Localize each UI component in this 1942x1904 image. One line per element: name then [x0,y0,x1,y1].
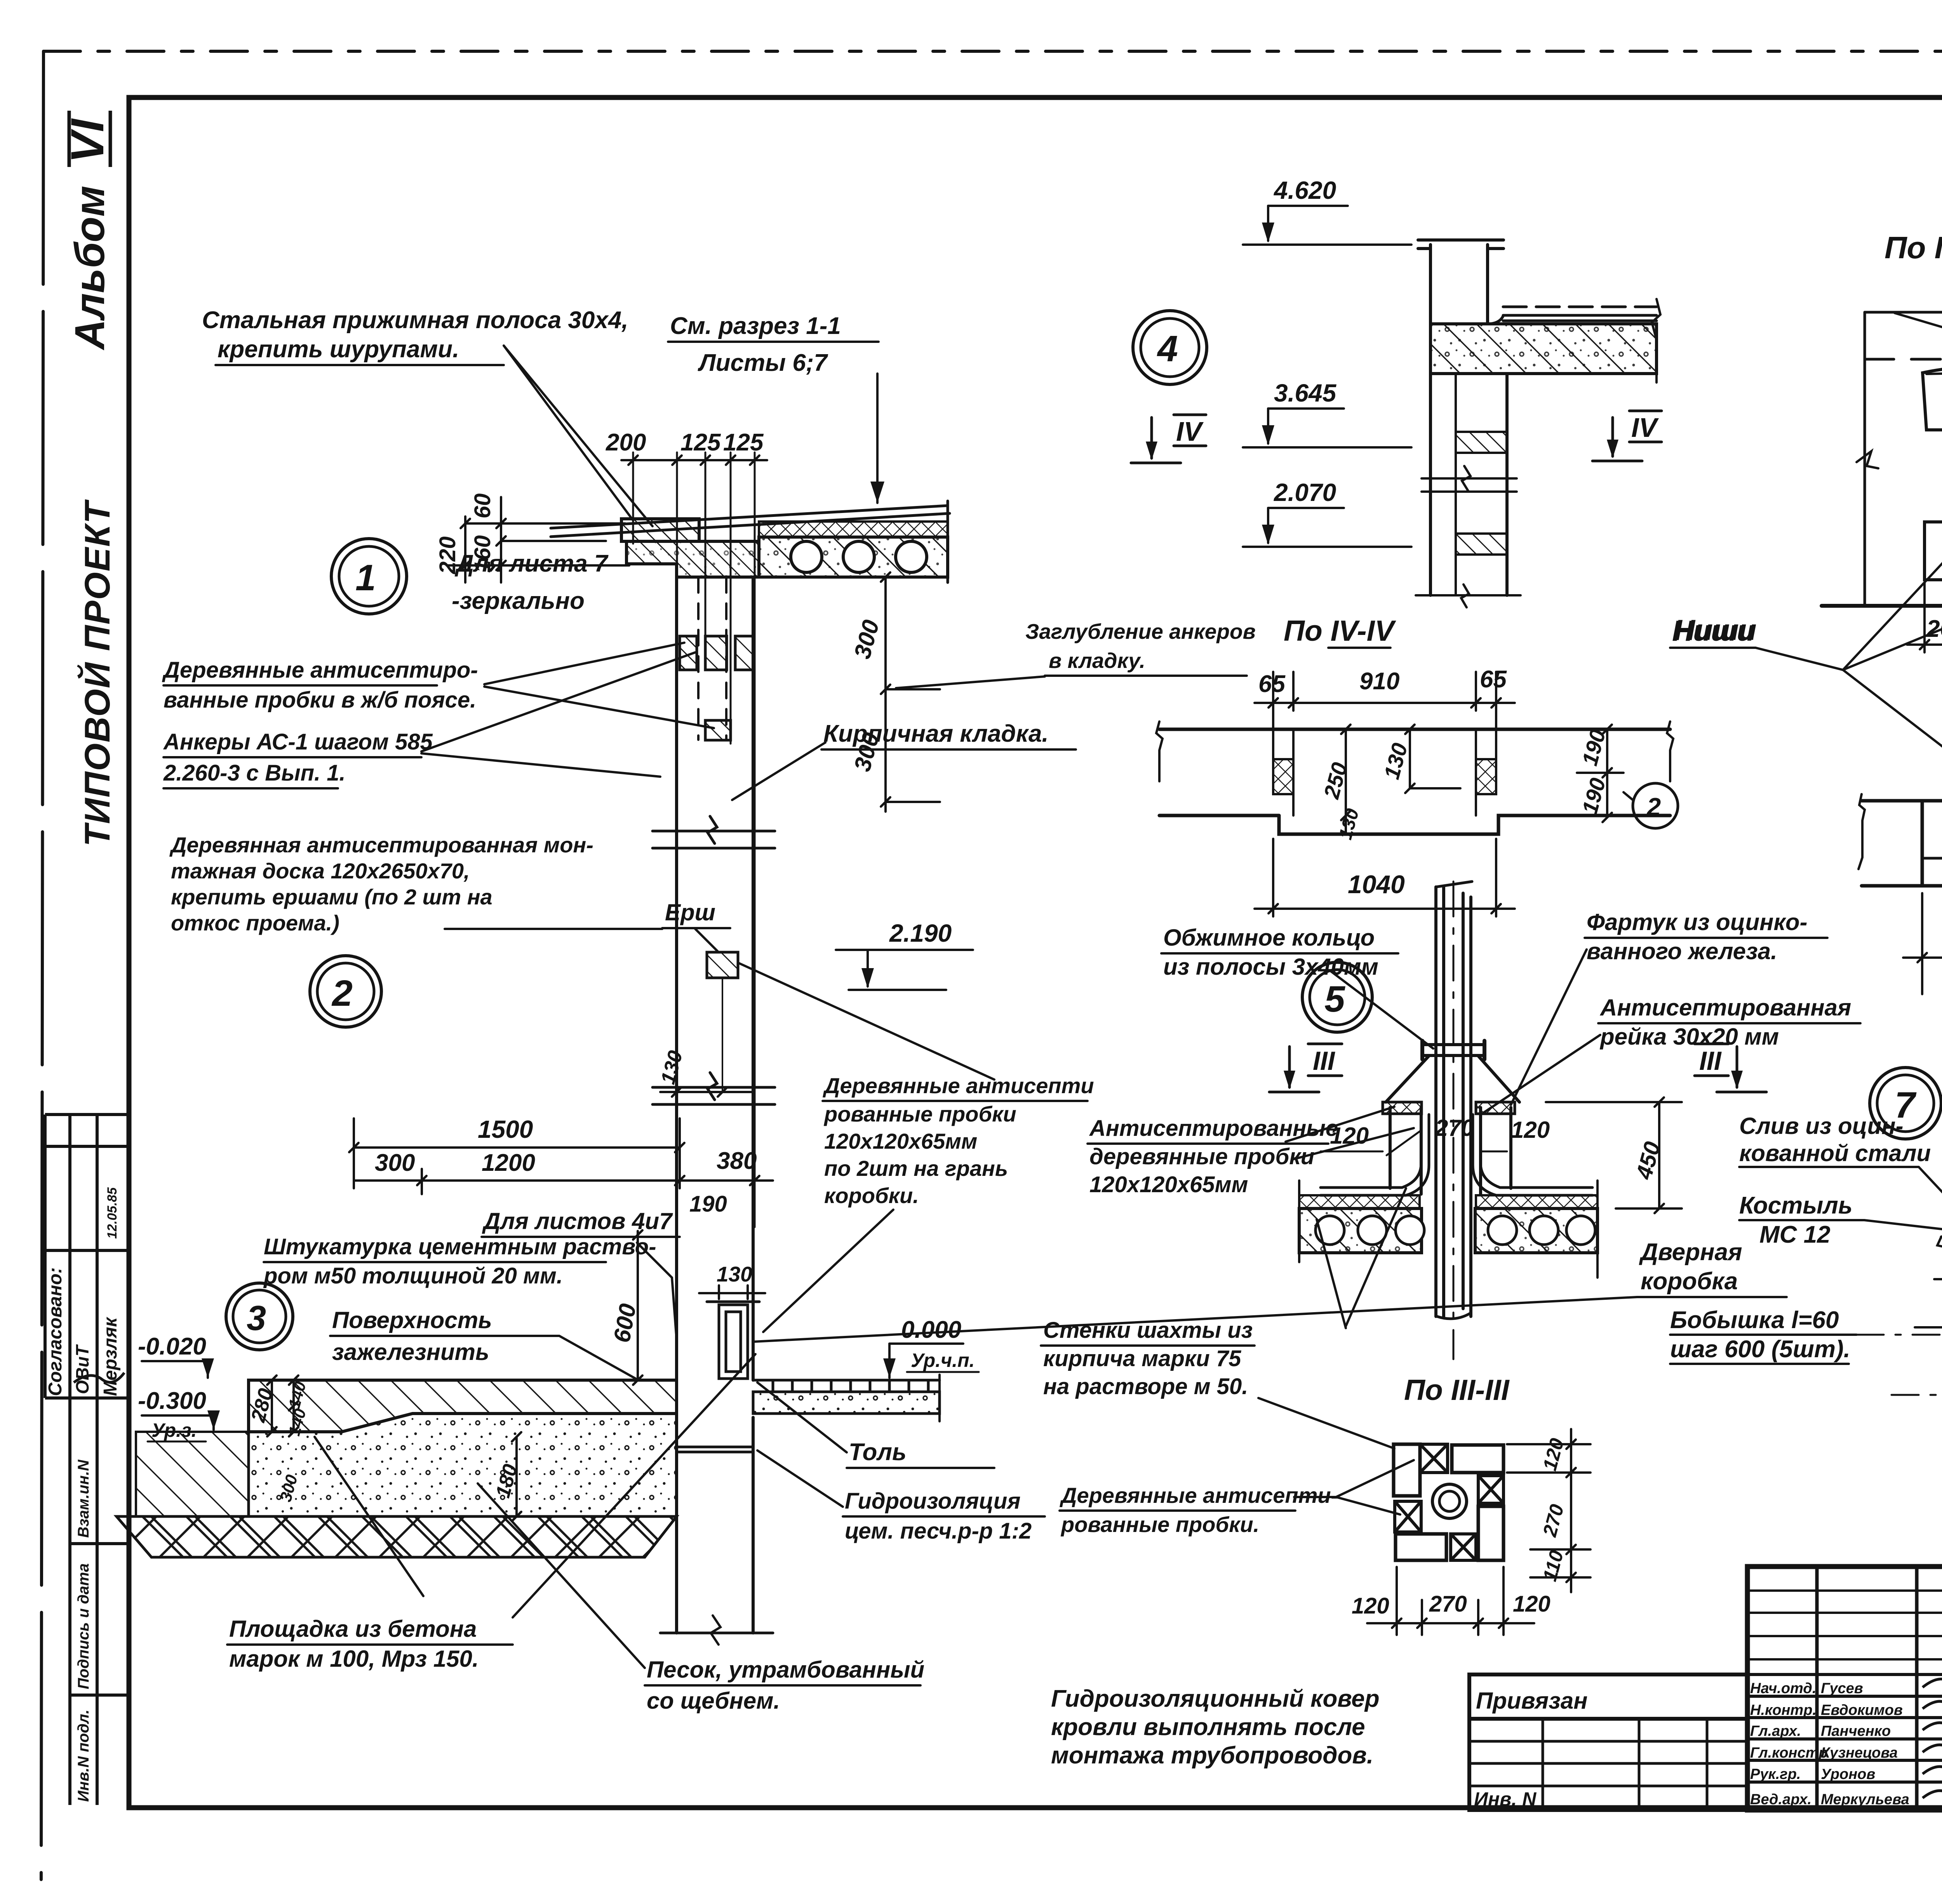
svg-text:Деревянные антисепти: Деревянные антисепти [823,1073,1094,1098]
svg-text:12.05.85: 12.05.85 [105,1187,120,1239]
roof line double [1503,307,1657,321]
svg-text:Песок, утрамбованный: Песок, утрамбованный [647,1657,924,1683]
svg-text:откос проема.): откос проема.) [171,911,339,935]
svg-text:-0.020: -0.020 [138,1333,206,1360]
svg-text:IV: IV [1631,412,1659,443]
plan band [1862,801,1942,886]
dim 450 right [1546,1097,1682,1213]
apron flare over slab left [1321,1115,1421,1188]
elevation 2.070 [1243,508,1411,547]
right floor slab concrete [1475,1208,1597,1253]
brick inserts in wall a [1456,432,1507,453]
level 0.000 mark [883,1344,963,1378]
plan niche side walls [1292,729,1295,816]
right vertical dim 300/300 at slab [881,572,940,812]
svg-text:Кузнецова: Кузнецова [1821,1745,1898,1761]
svg-text:крепить ершами (по 2 шт на: крепить ершами (по 2 шт на [171,885,492,909]
svg-text:на растворе м 50.: на растворе м 50. [1043,1374,1248,1399]
wall outer face line [675,577,678,1633]
anchor plug in belt b [705,636,727,670]
floor concrete layer [753,1392,940,1414]
svg-text:Для листа 7: Для листа 7 [454,550,609,577]
svg-text:Фартук из оцинко-: Фартук из оцинко- [1587,909,1807,935]
svg-text:ром м50 толщиной 20 мм.: ром м50 толщиной 20 мм. [263,1263,563,1288]
svg-text:190: 190 [689,1191,727,1217]
svg-text:ОВиТ: ОВиТ [72,1344,92,1394]
detail bubble 2 [310,956,381,1027]
vertical dims 280/140/140 [267,1375,298,1436]
svg-text:Костыль: Костыль [1739,1192,1853,1219]
leader from steel strip label [504,346,633,520]
svg-text:Анкеры АС-1 шагом 585: Анкеры АС-1 шагом 585 [163,729,433,755]
svg-text:ТИПОВОЙ ПРОЕКТ: ТИПОВОЙ ПРОЕКТ [77,499,117,847]
hollow-core floor slab [759,537,948,577]
crossed plug bottom [1451,1534,1476,1560]
drip slope line [1941,1216,1942,1237]
staff captions [1750,1680,1909,1808]
svg-text:Инв.N подл.: Инв.N подл. [75,1709,92,1802]
shaft right wall [1481,1108,1511,1194]
svg-text:120х120х65мм: 120х120х65мм [1089,1172,1248,1197]
svg-text:МС 12: МС 12 [1759,1221,1831,1248]
svg-text:из полосы 3х40мм: из полосы 3х40мм [1163,954,1378,980]
svg-text:Для листов 4и7: Для листов 4и7 [482,1208,673,1234]
svg-text:Ур.з.: Ур.з. [151,1419,197,1441]
leader обжимное кольцо [1330,971,1433,1049]
svg-text:910: 910 [1359,668,1399,695]
svg-text:По I-I: По I-I [1885,230,1942,265]
svg-text:Гл.констр: Гл.констр [1750,1745,1828,1761]
svg-text:0.000: 0.000 [901,1316,961,1343]
svg-text:кирпича марки 75: кирпича марки 75 [1043,1346,1241,1371]
leaders to ersh anchor [445,928,662,930]
svg-text:Кирпичная кладка.: Кирпичная кладка. [823,720,1049,747]
leader tol [757,1382,847,1452]
top dimension extension lines [633,452,755,1227]
title block outer frame [1747,1567,1942,1810]
elevation outline [1865,312,1942,606]
svg-text:марок м 100, Мрз 150.: марок м 100, Мрз 150. [229,1646,479,1672]
leader фартук [1511,949,1587,1105]
detail bubble 3 [226,1283,293,1350]
svg-text:III: III [1313,1046,1336,1076]
brick inserts in wall b [1456,534,1507,555]
brick bottom-left horizontal [1396,1534,1446,1560]
wall break symbol [1422,466,1517,492]
svg-text:Дверная: Дверная [1639,1239,1742,1266]
pipe top/bottom edges [1436,882,1472,887]
left floor slab concrete [1299,1208,1422,1253]
right dim chain 120/270/120 [1507,1429,1590,1592]
svg-text:1200: 1200 [482,1149,535,1176]
svg-text:шаг 600 (5шт).: шаг 600 (5шт). [1670,1336,1850,1363]
sand layer with gravel [249,1414,677,1516]
title block column lines [1817,1567,1942,1810]
svg-text:Антисептированная: Антисептированная [1599,995,1851,1021]
svg-text:Антисептированные: Антисептированные [1089,1116,1338,1141]
plan rotated dims [1341,725,1460,834]
crossed plug top [1420,1444,1448,1473]
svg-text:Уронов: Уронов [1821,1766,1875,1782]
svg-text:См. разрез 1-1: См. разрез 1-1 [670,313,841,339]
svg-text:по 2шт на грань: по 2шт на грань [824,1156,1008,1181]
album numeral VI (rotated) [61,111,113,167]
elevation 2.190 mark [836,950,973,990]
slab right break edge [947,501,949,583]
leaders to wooden plugs [484,643,684,684]
slab core circle a [791,541,822,572]
svg-text:200: 200 [606,429,646,456]
leaders from пробки note [1294,1460,1414,1497]
svg-text:2: 2 [1646,793,1661,821]
svg-text:120х120х65мм: 120х120х65мм [824,1129,977,1153]
svg-text:цем. песч.р-р 1:2: цем. песч.р-р 1:2 [845,1518,1032,1544]
svg-text:Обжимное кольцо: Обжимное кольцо [1163,925,1375,951]
svg-text:-зеркально: -зеркально [452,588,585,614]
brick plan: vertical brick top-left [1394,1444,1420,1496]
slab core circle c [896,541,927,572]
anchor dashed lines in wall [697,577,700,740]
apron flare over slab right [1481,1115,1592,1188]
svg-text:380: 380 [717,1148,757,1174]
detail bubble 7 [1870,1068,1941,1139]
plan right dims 190/190 [1577,725,1624,822]
wall bottom break [1416,594,1521,596]
vent pipe double lines [1436,887,1471,1316]
plan dim 65/910/65 [1255,672,1515,761]
level -0.300 mark [142,1410,220,1430]
svg-text:2: 2 [331,973,353,1014]
leader см.разрез vertical arrow [870,374,884,503]
svg-text:4.620: 4.620 [1273,176,1336,204]
small bubble 2 reference [1633,783,1678,828]
lower niche square left [1925,522,1942,580]
svg-text:коробка: коробка [1641,1268,1738,1295]
svg-text:Листы 6;7: Листы 6;7 [698,350,828,376]
top dimension line 200/125/125 [621,456,767,465]
brick right vertical [1478,1506,1503,1560]
svg-text:тажная доска 120х2650х70,: тажная доска 120х2650х70, [171,859,470,883]
svg-text:1500: 1500 [478,1115,533,1143]
svg-text:Ур.ч.п.: Ур.ч.п. [911,1349,975,1371]
svg-text:Меркульева: Меркульева [1821,1791,1909,1808]
svg-text:По IV-IV: По IV-IV [1284,614,1396,647]
svg-text:60: 60 [470,493,495,518]
svg-text:Слив из оцин-: Слив из оцин- [1739,1113,1903,1139]
bottom dims 260/380/260 [1907,583,1942,652]
anchor plug in belt a [680,636,697,670]
svg-text:270: 270 [1429,1591,1467,1617]
svg-text:Поверхность: Поверхность [332,1307,492,1333]
floor slab hatched [1430,324,1657,374]
svg-text:5: 5 [1324,979,1345,1020]
staff row lines [1747,1644,1942,1782]
svg-text:1040: 1040 [1348,870,1405,899]
svg-text:Ниши: Ниши [1672,614,1754,647]
svg-text:Согласовано:: Согласовано: [45,1267,66,1396]
parapet walls [1418,240,1503,375]
apron funnel left slope [1386,1055,1429,1102]
dashed top line [1865,358,1942,361]
svg-text:кованной стали: кованной стали [1739,1140,1931,1166]
svg-text:120: 120 [1352,1593,1389,1619]
svg-text:в кладку.: в кладку. [1049,649,1145,673]
svg-text:коробки.: коробки. [824,1183,919,1208]
section mark IV left [1131,415,1206,463]
ground surface left: concrete pad band [249,1380,677,1432]
detail bubble 1 [331,539,407,614]
svg-text:270: 270 [1435,1115,1474,1141]
signature squiggles [1923,1679,1942,1812]
svg-text:65: 65 [1480,666,1507,693]
dim 900 [1903,893,1942,994]
steel pressing strip at eave [621,519,699,541]
svg-text:Гидроизоляция: Гидроизоляция [845,1488,1021,1514]
svg-text:Вед.арх.: Вед.арх. [1750,1791,1811,1808]
svg-text:130: 130 [717,1262,752,1286]
svg-text:Инв. N: Инв. N [1474,1788,1537,1810]
svg-text:Ерш: Ерш [665,899,715,925]
svg-text:4: 4 [1157,328,1178,369]
dash link to подоконная доска [1857,1334,1942,1336]
svg-text:2.190: 2.190 [889,919,952,947]
svg-text:Стенки шахты из: Стенки шахты из [1043,1318,1253,1343]
long leader from стенки шахты down [1258,1398,1394,1448]
svg-text:-0.300: -0.300 [138,1388,206,1414]
svg-text:2.070: 2.070 [1274,478,1336,506]
svg-text:1: 1 [355,557,376,598]
svg-text:Гл.арх.: Гл.арх. [1750,1723,1801,1739]
svg-text:Гусев: Гусев [1821,1680,1863,1697]
plan По IV-IV wall band [1159,729,1670,834]
svg-text:По III-III: По III-III [1404,1374,1510,1406]
svg-text:монтажа трубопроводов.: монтажа трубопроводов. [1051,1742,1373,1769]
hydroisolation line in wall [677,1446,753,1448]
crossed plug right [1478,1476,1503,1503]
svg-text:зажелезнить: зажелезнить [332,1339,489,1365]
svg-text:Деревянные антисептиро-: Деревянные антисептиро- [162,657,478,683]
leader from заглубление note [896,676,1045,688]
svg-text:Н.контр.: Н.контр. [1750,1702,1817,1718]
svg-text:Стальная прижимная полоса 30х4: Стальная прижимная полоса 30х4, [202,307,628,334]
placeholder groups appended below [45,111,129,1805]
subgrade crosshatch [117,1516,677,1557]
svg-text:120: 120 [1511,1117,1550,1143]
leader sand note [478,1483,645,1668]
plan end breaks [1156,722,1162,781]
svg-text:рейка 30х20 мм: рейка 30х20 мм [1599,1024,1779,1050]
svg-text:Мерзляк: Мерзляк [100,1316,121,1396]
dim 380/50 [1934,1231,1942,1336]
plan dim 1040 [1255,839,1515,916]
svg-text:рованные пробки.: рованные пробки. [1060,1512,1259,1537]
slab core circle b [843,541,874,572]
clamp ring [1422,1045,1484,1055]
crossed plug left [1395,1501,1421,1532]
svg-text:Заглубление анкеров: Заглубление анкеров [1025,619,1256,643]
svg-text:3.645: 3.645 [1274,379,1337,407]
ground line [1822,604,1942,608]
plan niche plugs [1273,759,1293,794]
left floor slab insulation [1299,1195,1420,1208]
level -0.020 mark [142,1358,214,1378]
wall inner face line [752,577,755,1380]
svg-text:Взам.ин.N: Взам.ин.N [75,1459,92,1538]
privyazan table [1469,1674,1747,1810]
slab end ticks [1298,1181,1300,1262]
leader concrete pad note [513,1354,755,1617]
svg-text:Нач.отд.: Нач.отд. [1750,1680,1816,1697]
wall bottom edge [660,1632,773,1634]
section mark III right [1695,1044,1766,1092]
svg-text:Панченко: Панченко [1821,1723,1891,1739]
pipe circle [1432,1484,1467,1518]
leader рейка [1484,1035,1600,1113]
wall below slab [1430,374,1507,595]
svg-text:Евдокимов: Евдокимов [1821,1702,1903,1718]
svg-text:125: 125 [680,429,721,456]
vertical dim 600 [633,1230,642,1385]
leaders антисептированные пробки [1286,1107,1394,1142]
long leaders to plug note (right) [739,963,994,1080]
wall break symbol [653,816,775,1104]
svg-text:деревянные пробки: деревянные пробки [1089,1144,1314,1169]
concrete belt (cornice) left of wall [626,541,759,577]
svg-text:Привязан: Привязан [1476,1688,1587,1714]
svg-text:65: 65 [1258,671,1286,697]
slab right break [1652,299,1660,383]
dashed niche left [1925,857,1942,860]
svg-text:со щебнем.: со щебнем. [647,1688,780,1714]
svg-text:Бобышка l=60: Бобышка l=60 [1670,1307,1839,1334]
door frame dim 130 [699,1285,765,1299]
svg-text:кровли выполнять после: кровли выполнять после [1051,1714,1365,1741]
door frame in wall [707,1302,759,1379]
svg-text:III: III [1699,1046,1722,1076]
svg-text:120: 120 [1513,1591,1550,1617]
floor brick strip right of wall [753,1380,940,1392]
left eave dimension 60/160/220 [447,497,629,583]
anchor plug in belt c [735,636,753,670]
insulation strip over slab (crosshatch) [759,522,948,537]
svg-text:Площадка из бетона: Площадка из бетона [229,1616,477,1642]
leader hydroisolation [757,1450,843,1507]
svg-text:2.260-3 с Вып. 1.: 2.260-3 с Вып. 1. [163,760,346,786]
svg-text:крепить шурупами.: крепить шурупами. [218,336,459,363]
svg-text:IV: IV [1176,416,1204,447]
bottom reference with break [1915,1326,1942,1328]
svg-text:Деревянная антисептированная м: Деревянная антисептированная мон- [169,833,593,857]
right floor slab insulation [1476,1195,1597,1208]
apron funnel right slope [1478,1055,1519,1102]
section mark III left [1269,1044,1342,1092]
leaders стенки шахты [1346,1188,1406,1326]
svg-text:ванные пробки в ж/б поясе.: ванные пробки в ж/б поясе. [164,687,476,713]
elevation 3.645 [1243,409,1411,447]
svg-text:125: 125 [723,429,764,456]
left soil diagonal hatch [136,1432,249,1516]
leader to plaster note [637,1243,677,1340]
svg-text:Толь: Толь [849,1439,907,1466]
roof sloped double line [551,506,948,528]
brick top-right horizontal [1452,1445,1503,1473]
svg-text:ванного железа.: ванного железа. [1587,938,1777,964]
elevation 4.620 [1243,206,1411,245]
upper niche rectangle [1923,367,1942,430]
leader kirpichnaya kladka [732,742,825,800]
shaft left wall [1390,1108,1421,1194]
svg-text:Подпись и дата: Подпись и дата [75,1563,92,1689]
svg-text:Гидроизоляционный ковер: Гидроизоляционный ковер [1051,1685,1380,1712]
ersh anchor block [707,952,738,978]
thin upper rows of staff table [1747,1591,1942,1659]
detail bubble 5 [1302,962,1372,1032]
section mark IV right [1592,411,1662,461]
svg-text:3: 3 [247,1299,266,1338]
left stamp table [45,1115,129,1805]
end break marks [1858,794,1865,869]
top reference line [1941,1095,1942,1097]
detail bubble 4 [1133,311,1207,384]
bottom dim chain 120/270/120 [1367,1567,1534,1635]
svg-text:300: 300 [375,1149,415,1176]
dimension 1500 row [349,1118,773,1194]
dim 180 in sand [482,1432,559,1521]
svg-text:Деревянные антисепти-: Деревянные антисепти- [1060,1483,1338,1508]
svg-text:рованные пробки: рованные пробки [823,1102,1016,1126]
svg-text:Рук.гр.: Рук.гр. [1750,1766,1801,1782]
leaders from anchor note [421,652,695,751]
anchor plug lower [705,720,731,740]
svg-text:Альбом: Альбом [66,186,113,351]
